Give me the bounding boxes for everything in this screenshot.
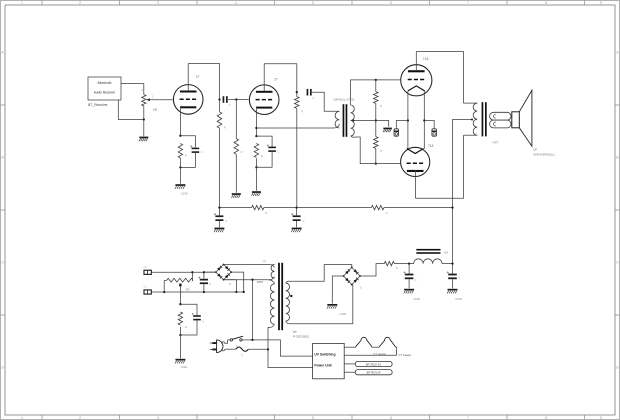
svg-text:A: A (2, 51, 5, 55)
svg-text:71A: 71A (428, 144, 435, 148)
junction DC- left (163, 291, 165, 293)
wire tap to switch (252, 280, 254, 340)
wire DB2 output to filter (360, 264, 384, 276)
wire right bias cell lead (424, 121, 434, 129)
wire VR2 right hook (191, 272, 194, 280)
pot wiper arrow (147, 99, 149, 101)
wire Rg2 leads (375, 121, 377, 164)
wire R2 to ground (235, 154, 237, 193)
AC plug P1 (217, 340, 223, 353)
wire filament bus left (407, 91, 409, 149)
ground C3 (214, 228, 224, 230)
plate load resistor R3 (295, 97, 300, 109)
wire DB1 right corner down (231, 272, 244, 292)
grid resistor Rg1 (upper) (374, 92, 379, 104)
wire V2 plate lead (263, 64, 265, 92)
wire DC- line (151, 291, 236, 293)
junction T1 center tap (352, 120, 354, 122)
ground grid leak R2 (232, 193, 241, 195)
grid resistor Rg2 (lower) (374, 137, 379, 149)
wire C5 leads (203, 272, 205, 292)
svg-text:Power Unit: Power Unit (314, 363, 332, 367)
svg-text:R: R (386, 211, 388, 215)
svg-text:C: C (201, 150, 203, 154)
junction filament right bias tap (423, 119, 425, 121)
wire B+ rail mid segment (264, 207, 371, 209)
junction bias RC top (179, 303, 181, 305)
wire C1 to V2 grid (228, 99, 249, 101)
bluetooth receiver module U_BT box (88, 77, 121, 100)
wire V1 cathode to ground (179, 158, 181, 184)
wire VR2 wiper down (179, 285, 181, 304)
svg-text:OPT: OPT (492, 140, 498, 144)
power transformer PT primary B (270, 284, 274, 325)
wire DC+ line (151, 271, 216, 273)
wire cathode RC bottom jog (180, 153, 195, 168)
wire C4 to ground (296, 221, 298, 227)
wire C7 to ground (408, 279, 410, 288)
junction V1 cathode top (179, 135, 181, 137)
power transformer PT core (278, 263, 280, 330)
power transformer PT primary A (271, 264, 274, 278)
wire V2 cathode lead (255, 109, 257, 136)
wire switch to junction (244, 339, 252, 341)
svg-text:C: C (303, 219, 305, 223)
junction filament left bias tap (407, 119, 409, 121)
wire C7 lead (408, 264, 410, 274)
wire PT primary B top hook (269, 280, 275, 284)
wire BT supply output 1 (344, 363, 355, 365)
wire grid leak R2 top lead (235, 100, 237, 139)
wire Rg1 leads (375, 80, 377, 121)
wire C3 lead (218, 208, 220, 216)
junction grid resistor top node (375, 79, 377, 81)
rail resistor R5 (371, 205, 384, 209)
wire cathode RC bottom jog V2 (256, 152, 272, 167)
svg-text:C: C (458, 275, 460, 279)
filter capacitor C3 (215, 215, 223, 217)
junction V1 plate RC node (218, 98, 220, 100)
wire PT primary A bottom line (236, 277, 274, 280)
junction V2 plate RC node (296, 91, 298, 93)
svg-text:CT Heater: CT Heater (398, 353, 411, 357)
interstage transformer T1 secondary winding (351, 105, 355, 136)
wire PT secondary bottom to DB2 (286, 285, 353, 324)
bridge rectifier DB2 (344, 267, 352, 276)
rail resistor R4 (252, 205, 264, 209)
junction B+ rail at R1 (218, 206, 220, 208)
bias cell right (432, 129, 437, 136)
svg-text:5: 5 (141, 88, 143, 92)
net capsule BT RCV 5V (355, 361, 392, 366)
wire OPT primary top lead (464, 102, 478, 104)
choke CH core (416, 249, 440, 251)
wire T1 secondary top to PP grids (351, 80, 401, 105)
wire fuse line to power unit (268, 349, 313, 367)
VR2 wiper arrow (179, 284, 181, 285)
triode V1 type 27 (173, 85, 203, 115)
svg-text:GND: GND (455, 297, 463, 301)
wire R3 to B+ rail (296, 108, 298, 207)
svg-text:7: 7 (467, 1, 469, 5)
connector CN2 (144, 290, 151, 294)
svg-text:27: 27 (274, 78, 278, 82)
svg-text:B: B (616, 156, 618, 160)
junction DB1 right on DC- (243, 291, 245, 293)
coupling capacitor C1 (223, 96, 225, 103)
ground V2 cathode (252, 191, 261, 193)
junction V2 cathode feedback node (255, 127, 257, 129)
svg-text:R: R (265, 211, 267, 215)
heater filament hump 1 (355, 337, 372, 347)
cathode resistor Rk2 (254, 144, 258, 158)
svg-text:C: C (616, 261, 619, 265)
svg-text:6: 6 (390, 416, 392, 420)
wire R7 to C7 node (394, 263, 413, 265)
svg-text:C: C (415, 278, 417, 282)
wire R1 to B+ rail (219, 128, 221, 207)
svg-text:C: C (1, 261, 4, 265)
junction V2 cathode bottom (255, 166, 257, 168)
junction B+ rail to PSU (451, 206, 453, 208)
bypass capacitor Ck2 (268, 147, 276, 149)
junction DC- at cap C5 (203, 291, 205, 293)
wire OPT center tap to B+ (453, 120, 473, 264)
wire OPT primary bottom lead (464, 134, 478, 136)
wire bias RC to ground (179, 327, 181, 359)
PSU capacitor C8 (448, 274, 457, 276)
wire cathode RC top jog V2 (256, 136, 272, 147)
wire V1 plate lead (187, 64, 189, 92)
wire plate load R3 top lead (296, 92, 298, 96)
svg-text:C: C (209, 282, 211, 286)
wire C3 to ground (218, 221, 220, 227)
wire DB1 bottom corner loop (224, 280, 237, 292)
bias cell left (394, 129, 399, 136)
wire V2 cathode to interstage primary return (256, 124, 339, 128)
net capsule BT RCV RTN (355, 370, 392, 375)
svg-text:6: 6 (390, 1, 392, 5)
svg-text:BT RCV 5+: BT RCV 5+ (366, 363, 381, 367)
wire fuse to junction (248, 348, 268, 350)
wire DC- extension (236, 291, 243, 293)
junction PSU node C7 (408, 262, 410, 264)
heater filament hump 2 (379, 337, 396, 347)
wire C2 to interstage primary (312, 92, 339, 111)
wire C8 to ground (452, 279, 454, 288)
triode V2 type 27 (249, 85, 279, 115)
svg-text:D: D (1, 366, 4, 370)
svg-text:1: 1 (152, 95, 154, 99)
wire V4 plate to OPT (416, 135, 464, 198)
svg-text:A: A (616, 51, 619, 55)
junction V2 cathode RC node (255, 135, 257, 137)
junction DB1 loop on DC- (235, 291, 237, 293)
connector CN1 (144, 270, 151, 274)
svg-text:(1): (1) (263, 259, 266, 263)
svg-text:4: 4 (235, 1, 237, 5)
ground T1 center tap (383, 128, 392, 130)
speaker SP horn (519, 90, 532, 146)
svg-text:VR: VR (185, 287, 190, 291)
junction V2 grid leak node (235, 98, 237, 100)
svg-text:VR: VR (153, 108, 158, 112)
svg-text:8: 8 (545, 1, 547, 5)
svg-text:F: F (241, 354, 243, 358)
svg-text:R: R (185, 325, 187, 329)
filter capacitor C5 (200, 279, 208, 281)
ground bias RC (175, 359, 185, 361)
switch SW1 (228, 339, 245, 341)
wire heater return bend (395, 347, 398, 355)
filter capacitor C4 (293, 215, 301, 217)
svg-text:GND: GND (181, 365, 189, 369)
svg-text:C: C (229, 103, 231, 107)
power triode V4 71A (lower) (401, 147, 430, 176)
svg-text:2: 2 (79, 1, 81, 5)
svg-text:PT: PT (293, 330, 297, 334)
ground C4 (292, 228, 302, 230)
ground C8 (448, 289, 458, 291)
svg-text:C: C (225, 219, 227, 223)
wire V1 plate to coupling node (188, 64, 219, 100)
svg-text:P-3ST(18C): P-3ST(18C) (293, 335, 309, 339)
svg-text:CT Heater: CT Heater (373, 352, 386, 356)
svg-text:C1: C1 (144, 266, 148, 269)
svg-text:BT RCV R: BT RCV R (367, 371, 382, 375)
volume potentiometer VR body (142, 95, 146, 106)
grid leak resistor R2 (234, 139, 239, 155)
svg-text:R: R (185, 153, 187, 157)
power transformer PT secondary (286, 283, 290, 321)
svg-text:GND: GND (339, 312, 347, 316)
svg-text:R: R (301, 110, 303, 114)
svg-text:C: C (277, 149, 279, 153)
wire PT primary A bottom from DB1 (224, 279, 237, 281)
speaker SP driver (512, 112, 520, 128)
wire choke to B+ node (442, 263, 452, 265)
output transformer OPT secondary winding (490, 112, 511, 120)
svg-text:27: 27 (196, 75, 200, 79)
wire PT secondary top to DB2 (286, 265, 352, 284)
wire DB2 left corner to ground (332, 276, 343, 304)
output transformer OPT primary winding (473, 103, 477, 135)
junction lower grid node (375, 162, 377, 164)
output transformer OPT core (482, 102, 484, 136)
wire heater output line (344, 346, 355, 348)
bias capacitor C6 (193, 315, 201, 317)
svg-text:8: 8 (545, 416, 547, 420)
wire VR2 left hook (164, 281, 167, 292)
interstage transformer T1 primary winding (335, 111, 339, 128)
svg-text:5: 5 (312, 416, 314, 420)
svg-text:SPEAKER8Ω(L): SPEAKER8Ω(L) (533, 153, 555, 157)
svg-text:D: D (616, 366, 619, 370)
wire bias RC bottom jog (180, 320, 197, 335)
wire BT box output to volume pot top (121, 84, 144, 95)
junction PSU node C8 (451, 262, 453, 264)
filter choke CH (414, 259, 443, 264)
svg-text:71A: 71A (423, 57, 430, 61)
svg-text:BT_Receiver: BT_Receiver (88, 103, 108, 107)
ground pot (139, 137, 148, 139)
wire DB1 top corner to PT primary1 (224, 264, 275, 267)
wire heater return line (344, 354, 396, 356)
svg-text:SP: SP (533, 148, 537, 152)
svg-text:CH: CH (444, 250, 448, 254)
wire pot bottom (143, 106, 145, 120)
svg-text:1: 1 (21, 416, 23, 420)
UV switching power unit box (313, 343, 345, 378)
svg-text:GND: GND (181, 192, 189, 196)
wire plug neutral to fuse (225, 348, 236, 350)
svg-text:D: D (360, 286, 362, 290)
junction bias center node (375, 119, 377, 121)
wire switch line to power unit (253, 340, 313, 356)
junction B+ rail at C3 (295, 206, 297, 208)
svg-text:R: R (241, 150, 243, 154)
svg-text:R: R (380, 149, 382, 153)
cathode resistor Rk1 (178, 144, 182, 159)
power triode V3 71A (upper) (401, 65, 432, 96)
hum balance pot VR2 (167, 278, 193, 282)
bias resistor R6 (178, 312, 182, 325)
junction fuse node (267, 348, 269, 350)
wire V2 plate to coupling node (264, 64, 297, 92)
svg-text:100V: 100V (257, 280, 264, 284)
wire C8 lead (452, 264, 454, 274)
PSU filter resistor R7 (384, 261, 394, 265)
wire left bias cell lead (396, 121, 408, 129)
svg-text:7: 7 (467, 416, 469, 420)
wire filament bus right (423, 91, 425, 149)
svg-text:R: R (380, 104, 382, 108)
svg-text:D: D (229, 282, 231, 286)
junction VR2 wiper node (179, 284, 182, 287)
svg-text:9: 9 (600, 416, 602, 420)
fuse F1 (236, 347, 249, 351)
bridge rectifier DB1 (216, 265, 224, 273)
junction DC+ at hum pot (191, 271, 193, 273)
svg-text:9: 9 (600, 1, 602, 5)
svg-text:SANSUI_ST-32: SANSUI_ST-32 (334, 98, 355, 102)
wire DB1 left corner to DC+ (204, 271, 216, 273)
svg-text:1: 1 (21, 1, 23, 5)
wire cathode RC top jog (180, 136, 195, 148)
svg-text:C2: C2 (144, 286, 148, 289)
svg-text:UV Switching: UV Switching (314, 352, 335, 356)
wire B+ rail left segment (219, 207, 251, 209)
junction bias RC bottom (179, 334, 181, 336)
svg-text:C: C (202, 319, 204, 323)
wire between heater humps (372, 346, 379, 348)
svg-text:Bluetooth: Bluetooth (98, 81, 112, 85)
junction DC+ at cap C5 (203, 271, 205, 273)
coupling capacitor C2 (307, 89, 309, 96)
wire plate load R1 top lead (219, 100, 221, 112)
ground DB2 (327, 304, 337, 306)
wire BT box bottom return (118, 100, 144, 120)
wire V1 cathode lead (179, 109, 181, 136)
svg-text:GND: GND (413, 297, 421, 301)
plate load resistor R1 (217, 112, 222, 128)
interstage transformer T1 core (343, 104, 345, 137)
wire V3 plate to OPT (416, 52, 463, 104)
junction OPT center tap (471, 119, 473, 121)
svg-text:C: C (312, 96, 314, 100)
junction switch node (251, 339, 253, 341)
wire BT supply output 2 (344, 371, 355, 373)
wire V2 cathode to ground (255, 158, 257, 190)
svg-text:B: B (2, 156, 4, 160)
svg-text:R: R (261, 154, 263, 158)
ground C7 (404, 289, 414, 291)
svg-text:Audio Receiver: Audio Receiver (94, 91, 117, 95)
wire bias RC top jog (180, 304, 197, 315)
junction V1 cathode bottom (179, 166, 181, 168)
junction switch feed tap (251, 279, 253, 281)
PSU capacitor C7 (405, 274, 414, 276)
svg-text:3: 3 (157, 416, 159, 420)
junction PT secondary tap (290, 295, 292, 297)
wire C4 lead (296, 208, 298, 216)
wire T1 secondary bottom to lower grid (351, 136, 401, 164)
svg-text:3: 3 (157, 1, 159, 5)
wire plug live to switch (225, 340, 228, 343)
wire T1 center tap line (353, 121, 389, 127)
junction pot bottom node (143, 118, 145, 120)
wire PT primary B bottom hook (268, 324, 275, 349)
svg-text:R: R (396, 266, 398, 270)
svg-text:4: 4 (235, 416, 237, 420)
svg-text:R: R (224, 125, 226, 129)
wire pot node to ground (143, 120, 145, 137)
wire B+ rail right segment (384, 207, 453, 209)
svg-text:2: 2 (79, 416, 81, 420)
ground V1 cathode (175, 184, 185, 186)
wire pot wiper to V1 grid (150, 99, 173, 101)
svg-text:5: 5 (312, 1, 314, 5)
bypass capacitor Ck1 (192, 148, 200, 150)
